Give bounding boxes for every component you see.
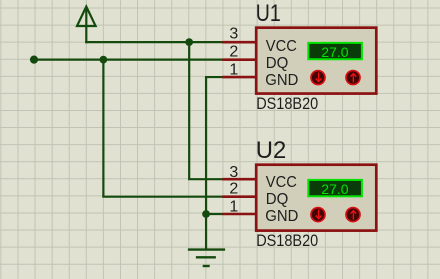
svg-text:DQ: DQ: [266, 191, 289, 208]
node: DQ net left terminal dot: [30, 56, 38, 64]
U1 body: [256, 28, 376, 94]
power terminal VCC (arrow): [77, 7, 96, 27]
svg-text:3: 3: [229, 164, 238, 181]
wire: U1 GND pin 1 horizontal: [205, 76, 223, 78]
wire: DQ vertical branch down to U2 row: [102, 60, 104, 197]
svg-text:VCC: VCC: [266, 174, 297, 191]
wire: GND vertical from U1 pin 1 down: [205, 77, 207, 214]
svg-text:GND: GND: [265, 72, 298, 89]
junction: GND at U2 pin 1: [202, 210, 210, 218]
svg-text:U1: U1: [256, 0, 281, 27]
svg-text:GND: GND: [265, 208, 298, 225]
U1 pin 2 stub: [222, 58, 256, 61]
svg-text:3: 3: [229, 26, 238, 43]
U2 pin 2 stub: [222, 195, 256, 198]
U2 temperature display 27.0: [308, 180, 362, 197]
junction: VCC branch to U2: [185, 38, 193, 46]
wire: VCC vertical branch down to U2 row: [188, 42, 190, 179]
wire: VCC rail horizontal to U1 pin 3: [85, 41, 222, 43]
wire: GND horizontal into U2 pin 1: [206, 213, 223, 215]
ground: [188, 250, 225, 266]
svg-text:VCC: VCC: [266, 38, 297, 55]
wire: GND down to ground symbol: [205, 214, 207, 250]
svg-text:27.0: 27.0: [321, 44, 348, 60]
U1 temperature display 27.0: [308, 43, 362, 60]
svg-text:27.0: 27.0: [321, 181, 348, 197]
svg-text:DS18B20: DS18B20: [256, 231, 318, 250]
svg-text:DS18B20: DS18B20: [256, 94, 318, 113]
svg-text:2: 2: [229, 44, 238, 61]
U2 pin 3 stub: [222, 178, 256, 181]
wire: power arrow shaft down to VCC rail: [85, 26, 87, 43]
sensor U1 (DS18B20): [222, 0, 376, 113]
U1 pin 3 stub: [222, 41, 256, 44]
wire: DQ horizontal into U2 pin 2: [102, 196, 222, 198]
sensor U2 (DS18B20): [222, 137, 376, 250]
svg-text:U2: U2: [256, 137, 286, 164]
junction: DQ branch to U2: [99, 56, 107, 64]
U1 pin 1 stub: [222, 76, 256, 79]
svg-text:1: 1: [229, 198, 238, 215]
svg-text:2: 2: [229, 181, 238, 198]
svg-text:1: 1: [229, 62, 238, 79]
U2 body: [256, 165, 376, 231]
U2 pin 1 stub: [222, 213, 256, 216]
U2 button decrease (down arrow): [311, 208, 325, 222]
wire: DQ horizontal to U1 pin 2: [34, 59, 223, 61]
U1 button decrease (down arrow): [311, 71, 325, 85]
wire: VCC horizontal into U2 pin 3: [188, 178, 223, 180]
U1 button increase (up arrow): [346, 71, 360, 85]
U2 button increase (up arrow): [346, 208, 360, 222]
svg-text:DQ: DQ: [266, 55, 289, 72]
